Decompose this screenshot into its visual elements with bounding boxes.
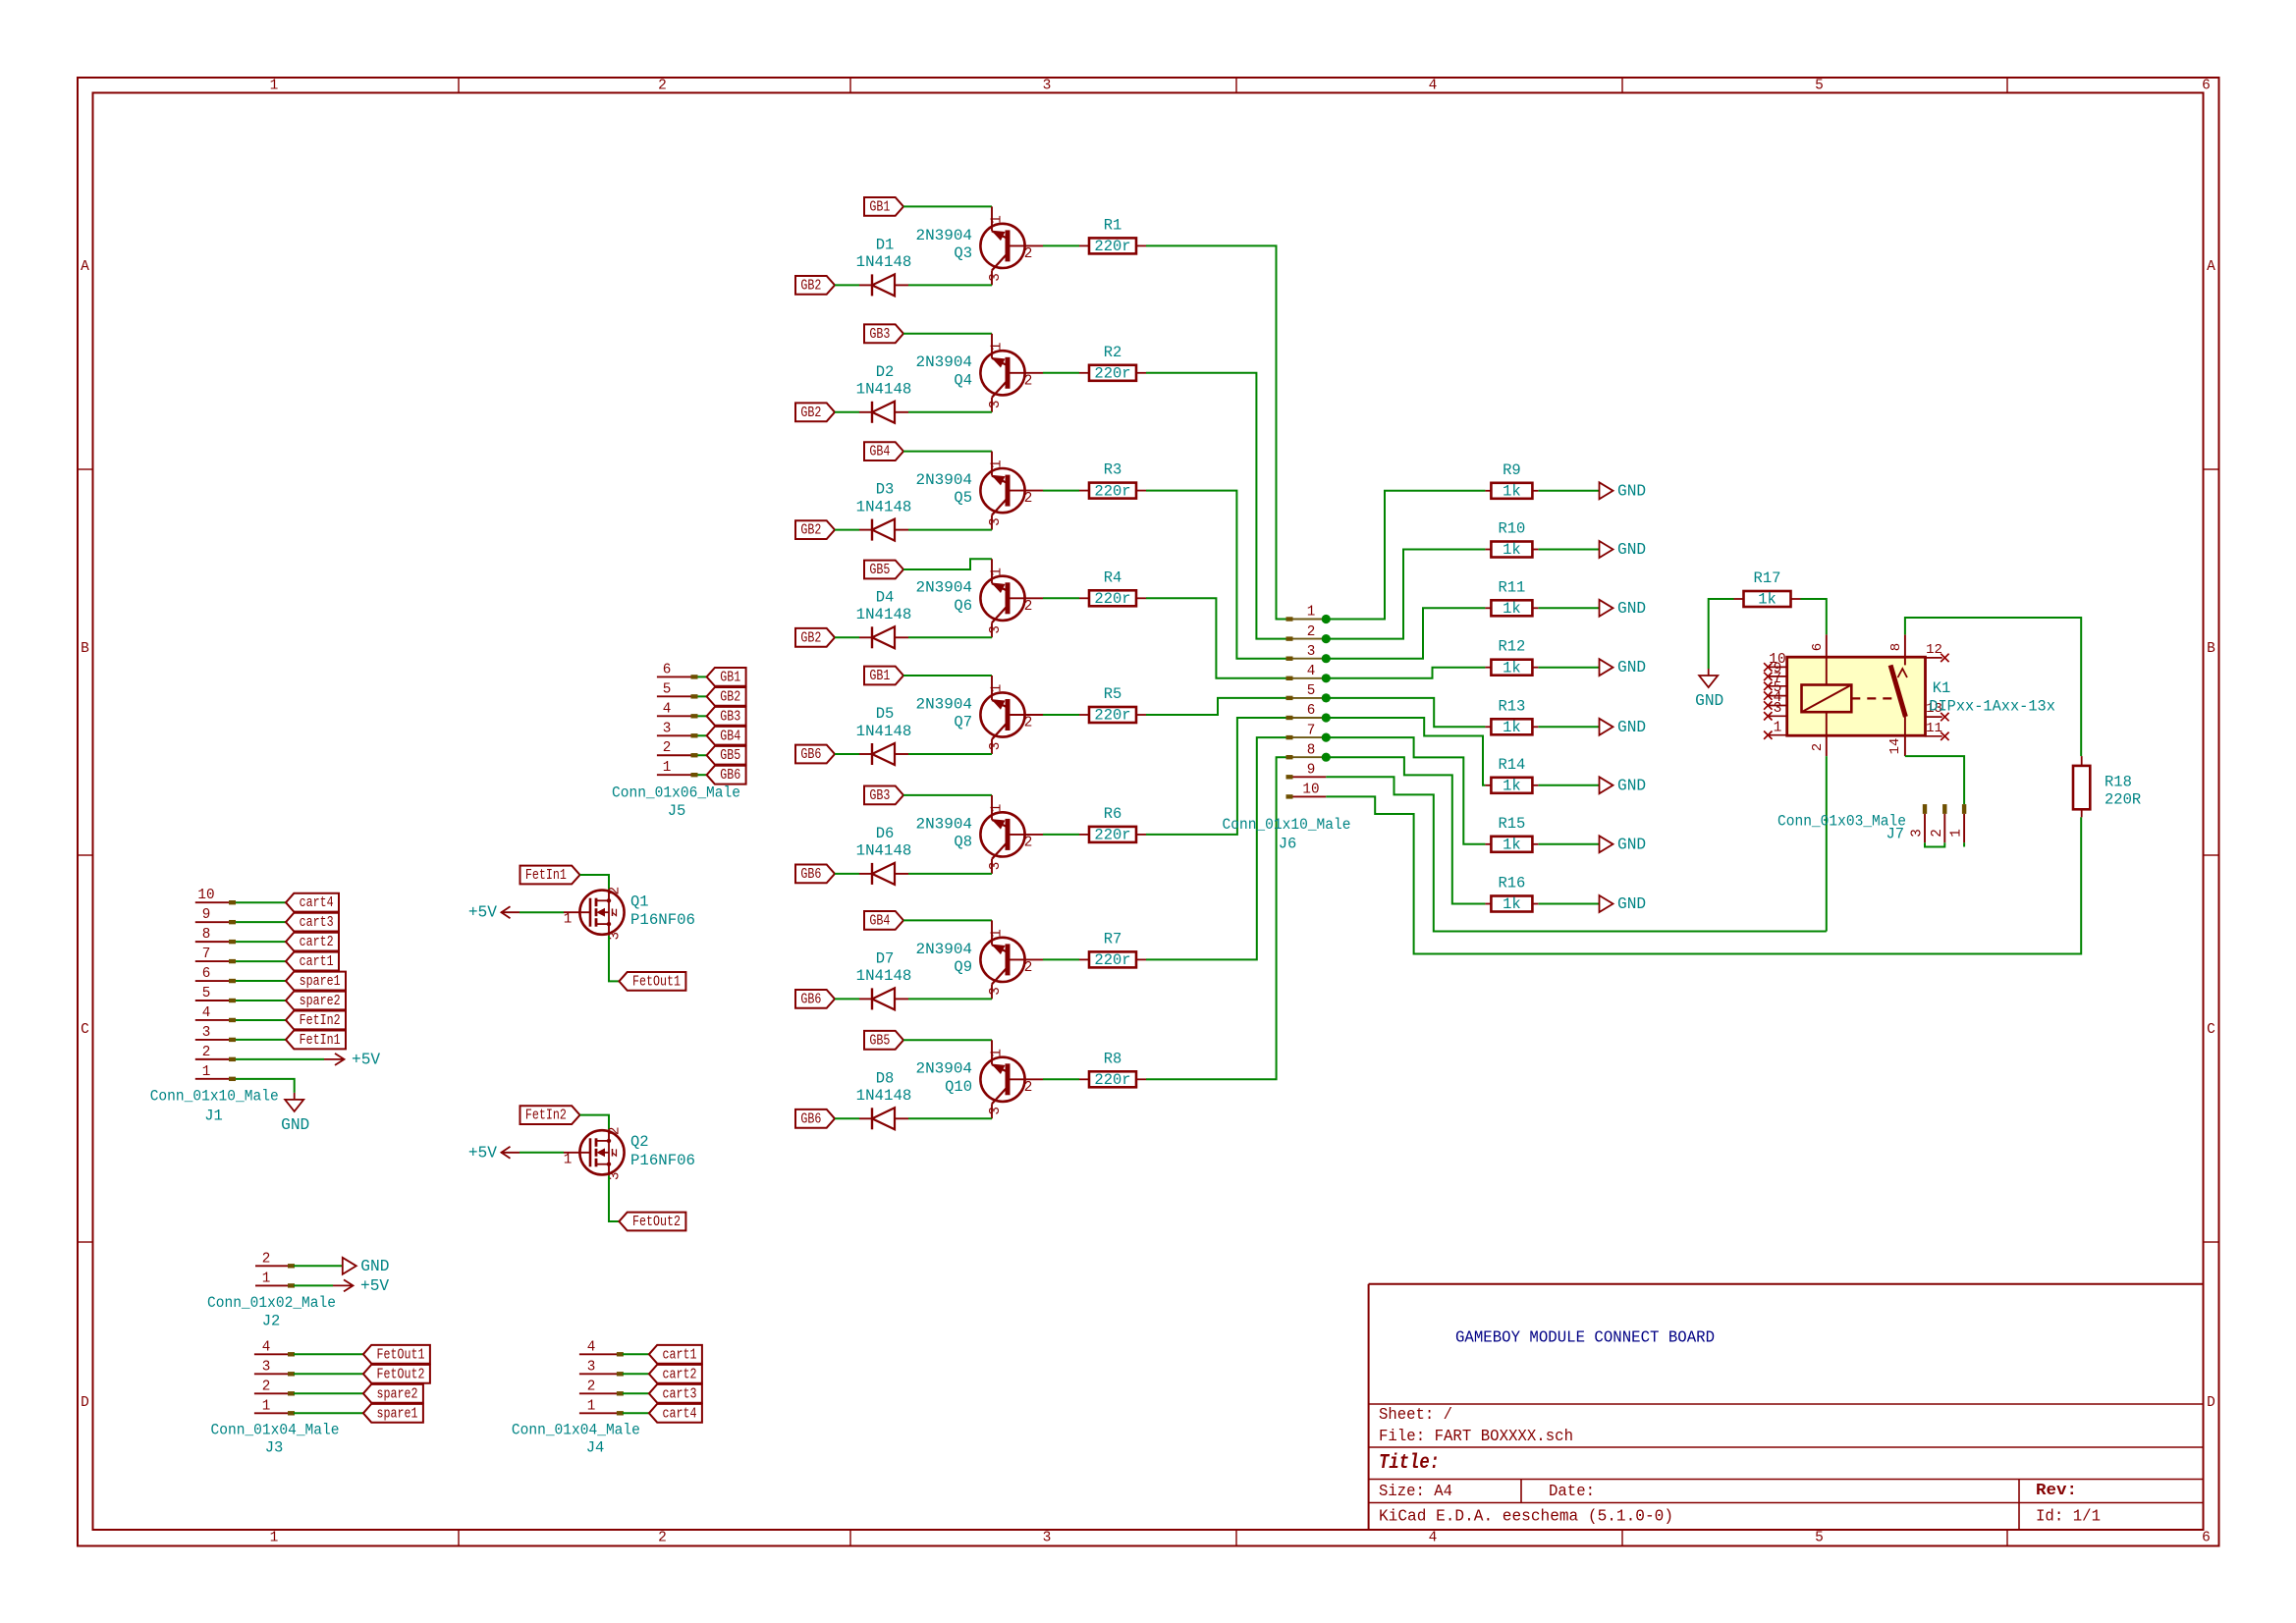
relay K1 DIPxx-1Axx-13x: [1764, 634, 2055, 756]
wire: [1539, 607, 1600, 609]
svg-text:1N4148: 1N4148: [856, 498, 912, 515]
svg-text:B: B: [2207, 641, 2215, 657]
svg-text:Title:: Title:: [1379, 1452, 1440, 1475]
svg-text:R14: R14: [1498, 756, 1525, 774]
svg-text:Conn_01x06_Male: Conn_01x06_Male: [612, 784, 740, 802]
svg-text:D: D: [2207, 1395, 2215, 1411]
svg-text:2N3904: 2N3904: [916, 579, 973, 597]
svg-text:5: 5: [1815, 1531, 1824, 1546]
svg-text:1N4148: 1N4148: [856, 842, 912, 860]
svg-text:6: 6: [2202, 1531, 2211, 1546]
resistor R9: [1485, 461, 1538, 501]
svg-text:Q5: Q5: [954, 489, 972, 507]
svg-text:2: 2: [1024, 1080, 1033, 1096]
svg-text:R16: R16: [1498, 875, 1525, 893]
svg-text:1: 1: [990, 460, 1006, 468]
svg-text:J7: J7: [1886, 825, 1904, 842]
svg-text:1: 1: [564, 912, 573, 928]
wire: [698, 754, 707, 756]
svg-text:3: 3: [988, 862, 1004, 871]
power flag GND (R13): [1600, 719, 1647, 736]
wire: [1146, 718, 1287, 835]
svg-text:1k: 1k: [1503, 719, 1521, 736]
svg-text:220r: 220r: [1094, 365, 1130, 383]
svg-text:J1: J1: [204, 1108, 223, 1125]
svg-text:Q3: Q3: [954, 244, 972, 262]
svg-text:3: 3: [1774, 701, 1782, 717]
global label GB3 (J5): [707, 707, 746, 726]
global label GB1 (cell 1 top): [864, 197, 903, 216]
wire: [1326, 718, 1485, 785]
svg-text:1: 1: [270, 79, 279, 94]
svg-text:3: 3: [202, 1025, 211, 1041]
wire: [1539, 667, 1600, 669]
svg-text:2: 2: [1024, 246, 1033, 262]
svg-text:J6: J6: [1279, 836, 1297, 853]
svg-text:2N3904: 2N3904: [916, 1060, 973, 1078]
power flag GND (R16): [1600, 895, 1647, 913]
global label spare1 (J1): [286, 972, 346, 991]
global label GB6 (cell 7 bottom): [795, 990, 835, 1008]
svg-text:cart3: cart3: [300, 914, 334, 931]
wire: [1043, 834, 1079, 836]
wire: [908, 873, 992, 875]
resistor R11: [1485, 578, 1538, 618]
svg-text:GND: GND: [1617, 482, 1646, 500]
svg-text:1: 1: [1949, 829, 1965, 838]
svg-text:220r: 220r: [1094, 238, 1130, 255]
wire: [835, 284, 859, 286]
svg-text:J5: J5: [668, 802, 686, 820]
wire (J6 pin 9 to relay K1 pin 2): [1326, 777, 1827, 931]
svg-text:spare1: spare1: [377, 1405, 418, 1422]
power flag GND (R12): [1600, 659, 1647, 676]
svg-text:D: D: [81, 1395, 89, 1411]
global label spare2 (J1): [286, 992, 346, 1010]
svg-text:7: 7: [202, 947, 211, 962]
wire: [1801, 599, 1827, 634]
global label GB4 (cell 7 top): [864, 911, 903, 930]
wire: [903, 919, 992, 921]
wire: [294, 1265, 343, 1267]
svg-text:1: 1: [262, 1398, 271, 1414]
svg-text:8: 8: [202, 927, 211, 943]
svg-text:GB4: GB4: [869, 444, 890, 460]
global label GB4 (J5): [707, 727, 746, 745]
global label FetIn2: [520, 1106, 580, 1124]
svg-text:GND: GND: [1617, 777, 1646, 794]
connector J7 Conn_01x03_Male: [1777, 804, 1966, 842]
svg-text:3: 3: [988, 625, 1004, 634]
svg-text:cart1: cart1: [300, 953, 334, 970]
svg-text:1: 1: [1307, 605, 1316, 621]
wire: [835, 753, 859, 755]
svg-text:6: 6: [1307, 703, 1316, 719]
svg-text:3: 3: [988, 273, 1004, 282]
svg-text:R12: R12: [1498, 638, 1525, 656]
wire: [1539, 784, 1600, 786]
svg-text:1k: 1k: [1503, 895, 1521, 913]
svg-text:1k: 1k: [1503, 541, 1521, 559]
wire: [1539, 726, 1600, 728]
svg-text:1: 1: [990, 1049, 1006, 1057]
svg-text:R18: R18: [2105, 774, 2132, 791]
wire: [623, 1392, 649, 1394]
svg-text:Rev:: Rev:: [2036, 1482, 2077, 1500]
svg-text:4: 4: [663, 701, 672, 717]
svg-text:3: 3: [587, 1359, 596, 1375]
svg-text:1: 1: [990, 343, 1006, 352]
svg-text:B: B: [81, 641, 89, 657]
svg-text:Q2: Q2: [630, 1133, 649, 1151]
global label cart2 (J4): [649, 1365, 702, 1383]
svg-text:2N3904: 2N3904: [916, 815, 973, 833]
svg-text:spare2: spare2: [300, 993, 341, 1009]
wire: [835, 998, 859, 1000]
svg-text:cart4: cart4: [663, 1405, 697, 1422]
svg-text:GB3: GB3: [720, 708, 740, 725]
svg-text:2N3904: 2N3904: [916, 941, 973, 958]
wire (J7 pins 3-2 jumper): [1925, 842, 1944, 846]
svg-text:GB2: GB2: [800, 522, 821, 539]
svg-text:1: 1: [990, 684, 1006, 693]
svg-text:C: C: [2207, 1022, 2215, 1038]
wire: [236, 980, 286, 982]
svg-text:3: 3: [988, 401, 1004, 409]
wire: [623, 1412, 649, 1414]
svg-text:2: 2: [1024, 716, 1033, 731]
wire: [1146, 598, 1287, 678]
global label GB5 (cell 8 top): [864, 1031, 903, 1050]
wire: [1709, 599, 1734, 669]
wire: [835, 636, 859, 638]
svg-text:2: 2: [1024, 599, 1033, 615]
transistor Q7: [916, 676, 1044, 754]
global label GB2 (cell 1 bottom): [795, 276, 835, 295]
svg-text:R15: R15: [1498, 815, 1525, 833]
svg-text:GB4: GB4: [720, 728, 740, 744]
svg-text:FetIn2: FetIn2: [300, 1012, 341, 1029]
global label GB6 (cell 5 bottom): [795, 745, 835, 764]
svg-text:10: 10: [1302, 783, 1319, 798]
global label GB2 (cell 3 bottom): [795, 520, 835, 539]
svg-text:R17: R17: [1754, 569, 1781, 587]
junction (J6 pin 7): [1322, 733, 1331, 742]
svg-text:4: 4: [1429, 79, 1438, 94]
svg-text:1k: 1k: [1758, 591, 1777, 609]
svg-text:2: 2: [202, 1045, 211, 1060]
wire: [294, 1284, 333, 1286]
transistor Q10: [916, 1040, 1044, 1118]
svg-text:4: 4: [262, 1339, 271, 1355]
svg-text:1: 1: [564, 1152, 573, 1167]
global label GB2 (J5): [707, 687, 746, 706]
global label cart1 (J1): [286, 952, 339, 971]
resistor R3: [1079, 461, 1146, 501]
svg-text:6: 6: [663, 662, 672, 677]
wire: [609, 936, 619, 982]
junction (J6 pin 5): [1322, 693, 1331, 702]
svg-text:Conn_01x10_Male: Conn_01x10_Male: [150, 1088, 279, 1106]
global label GB1 (cell 5 top): [864, 667, 903, 685]
svg-text:J2: J2: [262, 1313, 281, 1330]
svg-text:2: 2: [1024, 373, 1033, 389]
wire: [908, 1117, 992, 1119]
wire: [580, 875, 610, 890]
global label GB6 (J5): [707, 766, 746, 784]
svg-text:220r: 220r: [1094, 482, 1130, 500]
wire: [908, 529, 992, 531]
wire: [1146, 245, 1287, 619]
wire: [1043, 1078, 1079, 1080]
svg-text:2: 2: [658, 1531, 667, 1546]
transistor Q6: [916, 559, 1044, 637]
wire: [294, 1353, 363, 1355]
wire: [236, 1039, 286, 1041]
svg-text:R5: R5: [1104, 685, 1122, 703]
wire: [1146, 373, 1287, 639]
global label GB4 (cell 3 top): [864, 442, 903, 460]
svg-text:1k: 1k: [1503, 483, 1521, 501]
diode D3: [856, 481, 912, 541]
global label cart3 (J1): [286, 913, 339, 932]
global label GB2 (cell 2 bottom): [795, 403, 835, 421]
wire: [1326, 698, 1485, 727]
svg-text:1N4148: 1N4148: [856, 967, 912, 985]
svg-text:3: 3: [988, 517, 1004, 526]
ground symbol GND (near R17): [1695, 669, 1723, 710]
wire: [1963, 842, 1965, 846]
wire: [1539, 490, 1600, 492]
svg-text:GB6: GB6: [800, 1110, 821, 1127]
svg-text:2: 2: [1810, 743, 1826, 751]
svg-text:GB2: GB2: [800, 629, 821, 646]
svg-text:D6: D6: [876, 825, 895, 842]
wire: [908, 998, 992, 1000]
svg-text:J3: J3: [265, 1439, 284, 1457]
svg-text:5: 5: [663, 681, 672, 697]
global label FetOut1: [619, 972, 685, 991]
svg-text:220r: 220r: [1094, 1071, 1130, 1089]
svg-text:4: 4: [587, 1339, 596, 1355]
global label GB2 (cell 4 bottom): [795, 628, 835, 647]
svg-text:D5: D5: [876, 705, 895, 723]
global label cart1 (J4): [649, 1345, 702, 1364]
svg-text:GB1: GB1: [869, 668, 890, 684]
wire: [1146, 491, 1287, 659]
wire: [835, 411, 859, 413]
svg-text:P16NF06: P16NF06: [630, 1152, 695, 1169]
wire: [1539, 549, 1600, 551]
svg-text:D7: D7: [876, 949, 895, 967]
global label cart4 (J4): [649, 1404, 702, 1423]
global label FetOut2 (J3): [363, 1365, 430, 1383]
svg-text:GB5: GB5: [869, 562, 890, 578]
junction (J6 pin 1): [1322, 615, 1331, 623]
svg-text:3: 3: [988, 742, 1004, 751]
wire: [1146, 757, 1287, 1079]
svg-text:2: 2: [608, 1127, 624, 1136]
connector J1 Conn_01x10_Male: [150, 888, 279, 1124]
title block: [1369, 1284, 2204, 1530]
svg-text:cart2: cart2: [300, 934, 334, 950]
svg-text:P16NF06: P16NF06: [630, 911, 695, 929]
svg-text:Q8: Q8: [954, 834, 972, 851]
svg-text:6: 6: [1810, 643, 1826, 651]
svg-text:2: 2: [587, 1379, 596, 1394]
global label cart2 (J1): [286, 933, 339, 951]
svg-text:Q6: Q6: [954, 597, 972, 615]
wire: [903, 675, 992, 676]
svg-text:6: 6: [202, 966, 211, 982]
svg-text:12: 12: [1926, 642, 1942, 658]
wire: [1326, 737, 1485, 844]
svg-text:D3: D3: [876, 481, 895, 499]
svg-text:2: 2: [608, 887, 624, 895]
svg-text:GAMEBOY MODULE CONNECT BOARD: GAMEBOY MODULE CONNECT BOARD: [1455, 1329, 1715, 1348]
svg-text:GND: GND: [1617, 600, 1646, 618]
svg-text:FetIn2: FetIn2: [525, 1108, 567, 1124]
diode D8: [856, 1069, 912, 1129]
svg-text:9: 9: [1307, 763, 1316, 779]
svg-text:1k: 1k: [1503, 600, 1521, 618]
wire: [1326, 491, 1485, 620]
wire: [698, 734, 707, 736]
global label GB5 (J5): [707, 746, 746, 765]
svg-text:Q9: Q9: [954, 958, 972, 976]
wire (J6 pin 10 to R18): [1326, 796, 2081, 953]
wire: [1146, 737, 1287, 959]
svg-text:R4: R4: [1104, 568, 1122, 586]
svg-text:+5V: +5V: [468, 904, 497, 922]
wire: [835, 1117, 859, 1119]
wire: [903, 559, 992, 569]
svg-text:2N3904: 2N3904: [916, 227, 973, 244]
wire: [294, 1392, 363, 1394]
svg-text:3: 3: [988, 1107, 1004, 1115]
svg-text:cart1: cart1: [663, 1346, 697, 1363]
svg-text:220r: 220r: [1094, 707, 1130, 725]
wire: [1043, 597, 1079, 599]
svg-text:3: 3: [663, 721, 672, 736]
svg-text:GB6: GB6: [800, 866, 821, 883]
transistor Q2 P16NF06: [564, 1127, 695, 1181]
svg-text:1: 1: [1774, 720, 1782, 735]
svg-text:1: 1: [262, 1271, 271, 1286]
svg-text:Id: 1/1: Id: 1/1: [2036, 1507, 2101, 1526]
svg-text:3: 3: [262, 1359, 271, 1375]
wire: [236, 960, 286, 962]
svg-text:2N3904: 2N3904: [916, 353, 973, 371]
junction (J6 pin 8): [1322, 753, 1331, 762]
global label cart4 (J1): [286, 893, 339, 912]
global label cart3 (J4): [649, 1384, 702, 1403]
wire: [236, 1079, 295, 1093]
svg-text:2: 2: [262, 1379, 271, 1394]
resistor R14: [1485, 756, 1538, 795]
wire (K1 pin 2 down): [1826, 756, 1828, 931]
svg-text:2: 2: [663, 740, 672, 756]
svg-text:2: 2: [1024, 491, 1033, 507]
wire: [519, 1152, 564, 1154]
wire: [294, 1373, 363, 1375]
resistor R12: [1485, 638, 1538, 677]
wire: [903, 333, 992, 335]
wire: [1043, 714, 1079, 716]
svg-text:GB5: GB5: [720, 747, 740, 764]
svg-text:220R: 220R: [2105, 791, 2141, 809]
junction (J6 pin 6): [1322, 713, 1331, 722]
svg-text:A: A: [81, 259, 89, 275]
svg-text:2: 2: [1024, 960, 1033, 976]
resistor R5: [1079, 685, 1146, 725]
svg-text:2: 2: [262, 1251, 271, 1267]
svg-text:R3: R3: [1104, 461, 1122, 479]
svg-text:R11: R11: [1498, 578, 1525, 596]
svg-text:Size: A4: Size: A4: [1379, 1482, 1452, 1500]
svg-text:+5V: +5V: [352, 1051, 380, 1068]
wire: [908, 284, 992, 286]
svg-text:cart3: cart3: [663, 1385, 697, 1402]
resistor R4: [1079, 568, 1146, 608]
svg-text:10: 10: [197, 888, 214, 903]
connector J5 Conn_01x06_Male: [612, 662, 740, 820]
wire: [236, 901, 286, 903]
global label GB5 (cell 4 top): [864, 561, 903, 579]
connector J2 Conn_01x02_Male: [207, 1251, 336, 1329]
svg-text:File: FART BOXXXX.sch: File: FART BOXXXX.sch: [1379, 1427, 1573, 1445]
transistor Q4: [916, 334, 1044, 412]
transistor Q9: [916, 920, 1044, 999]
svg-text:DIPxx-1Axx-13x: DIPxx-1Axx-13x: [1929, 698, 2055, 716]
svg-text:+5V: +5V: [468, 1144, 497, 1162]
diode D2: [856, 363, 912, 423]
wire: [903, 205, 992, 207]
svg-text:GND: GND: [1617, 836, 1646, 853]
svg-text:3: 3: [1910, 829, 1926, 838]
power +5V (J1 pin 2): [324, 1051, 380, 1068]
svg-text:C: C: [81, 1022, 89, 1038]
svg-text:R1: R1: [1104, 216, 1122, 234]
svg-text:1k: 1k: [1503, 778, 1521, 795]
global label FetIn1: [520, 866, 580, 885]
resistor R7: [1079, 930, 1146, 969]
wire: [835, 529, 859, 531]
svg-text:4: 4: [1429, 1531, 1438, 1546]
svg-text:4: 4: [202, 1005, 211, 1021]
svg-text:K1: K1: [1933, 679, 1951, 697]
svg-text:220r: 220r: [1094, 951, 1130, 969]
global label FetIn1 (J1): [286, 1031, 346, 1050]
wire: [609, 1175, 619, 1221]
wire: [1043, 958, 1079, 960]
resistor R1: [1079, 216, 1146, 255]
svg-text:GND: GND: [281, 1116, 309, 1134]
wire (K1 pin 8 to R18): [1905, 618, 2081, 756]
svg-text:GB6: GB6: [800, 746, 821, 763]
wire: [1539, 843, 1600, 845]
diode D6: [856, 825, 912, 885]
svg-text:GB2: GB2: [800, 405, 821, 421]
wire: [580, 1115, 610, 1130]
svg-text:GND: GND: [1617, 895, 1646, 913]
global label GB6 (cell 6 bottom): [795, 865, 835, 884]
svg-text:GB4: GB4: [869, 912, 890, 929]
transistor Q8: [916, 795, 1044, 874]
wire: [1326, 608, 1485, 658]
connector J3 Conn_01x04_Male: [211, 1339, 340, 1456]
diode D7: [856, 949, 912, 1009]
